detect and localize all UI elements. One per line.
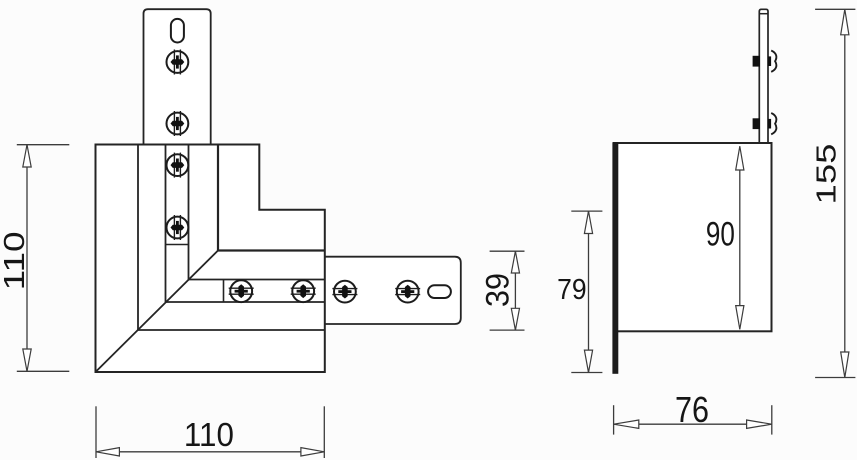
dimension 76: extension line left	[613, 405, 615, 434]
dimension 90: arrowhead up	[736, 146, 744, 170]
dimension 110 (left vertical): arrowhead up	[23, 145, 31, 167]
dimension 90: arrowhead down	[736, 306, 744, 330]
dimension 76: dimension line	[614, 423, 772, 425]
screw S7 (flat plate, left)	[332, 281, 357, 303]
dimension 110 (bottom): arrowhead right	[301, 448, 324, 456]
dimension 79: arrowhead up	[584, 211, 592, 233]
dimension 155: dimension line	[844, 9, 846, 377]
side screw shank nub (upper)	[768, 56, 771, 66]
dimension 76: arrowhead left	[614, 420, 639, 428]
inner profile edge (horizontal, y=250.5)	[218, 249, 325, 251]
dimension 39: extension line bottom	[490, 329, 525, 331]
dimension 39: arrowhead down	[511, 308, 519, 330]
screw S3 (vertical arm channel, upper)	[167, 153, 189, 178]
dimension 155: arrowhead up	[841, 9, 849, 35]
svg-text:110: 110	[184, 416, 234, 453]
profile layer line (horizontal, y=330)	[138, 329, 325, 331]
screw S4 (vertical arm channel, lower)	[167, 215, 189, 240]
dimension 110 (bottom): extension line left	[95, 406, 97, 458]
slot hole in flat plate	[428, 285, 451, 298]
svg-text:155: 155	[811, 144, 842, 205]
dimension 39: arrowhead up	[511, 251, 519, 273]
side body box	[614, 143, 772, 331]
screw S6 (horizontal arm channel, right)	[291, 280, 316, 302]
side screw shank nub (lower)	[768, 119, 771, 129]
screw channel left wall (vertical arm)	[165, 145, 167, 303]
dimension 155: extension line bottom	[815, 377, 855, 379]
screw channel end cap (horizontal arm)	[223, 280, 225, 303]
dimension 110 (left vertical): dimension line	[26, 145, 28, 372]
dimension 79: arrowhead down	[584, 350, 592, 372]
svg-text:110: 110	[0, 231, 31, 290]
dimension 79: dimension line	[588, 211, 590, 372]
dimension 155: label	[811, 144, 842, 205]
svg-text:39: 39	[480, 273, 516, 307]
dimension 76: arrowhead right	[747, 420, 772, 428]
screw S2 (top bracket, lower)	[167, 111, 189, 136]
top mounting bracket plate	[144, 9, 211, 146]
side screw nut (upper, square)	[753, 56, 760, 67]
miter diagonal	[96, 251, 219, 373]
svg-text:76: 76	[675, 389, 709, 430]
profile layer line (vertical, x=138)	[137, 145, 139, 331]
screw channel top wall (horizontal arm)	[189, 279, 325, 281]
right flat connector plate	[325, 257, 461, 324]
dimension 39: label	[480, 273, 516, 307]
svg-text:79: 79	[557, 274, 587, 306]
screw channel right wall (vertical arm)	[188, 145, 190, 280]
dimension 39: extension line top	[490, 250, 525, 252]
side screw head (upper, dome)	[771, 51, 776, 72]
dimension 110 (left vertical): arrowhead down	[23, 349, 31, 371]
dimension 76: extension line right	[771, 405, 773, 434]
dimension 110 (bottom): arrowhead left	[96, 448, 119, 456]
L-body outer outline	[96, 145, 325, 373]
screw S8 (flat plate, right)	[395, 281, 420, 303]
dimension 39: dimension line	[514, 251, 516, 330]
inner profile edge (vertical, x=218)	[217, 145, 219, 251]
svg-text:90: 90	[706, 215, 735, 253]
dimension 110 (bottom): extension line right	[323, 406, 325, 458]
screw S1 (top bracket, upper)	[167, 50, 189, 75]
dimension 110 (left vertical): extension line bottom	[17, 370, 70, 372]
screw S5 (horizontal arm channel, left)	[229, 280, 254, 302]
dimension 155: arrowhead down	[841, 352, 849, 378]
screw channel end cap (vertical arm)	[166, 244, 189, 246]
dimension 90: dimension line	[739, 146, 741, 329]
side screw nut (lower, square)	[753, 118, 760, 129]
screw channel bottom wall (horizontal arm)	[166, 301, 325, 303]
side bracket plate top cap line	[759, 13, 768, 15]
dimension 110 (left vertical): label	[0, 231, 31, 290]
dimension 110 (bottom): dimension line	[96, 451, 324, 453]
dimension 79: extension line bottom	[571, 372, 602, 374]
side body front flange (thick edge)	[612, 142, 618, 374]
dimension 110 (left vertical): extension line top	[17, 144, 70, 146]
dimension 79: extension line top	[571, 210, 602, 212]
side bracket plate (edge-on)	[759, 9, 768, 144]
dimension 155: extension line top	[815, 8, 855, 10]
slot hole in top bracket	[171, 19, 184, 43]
side screw head (lower, dome)	[771, 113, 776, 134]
